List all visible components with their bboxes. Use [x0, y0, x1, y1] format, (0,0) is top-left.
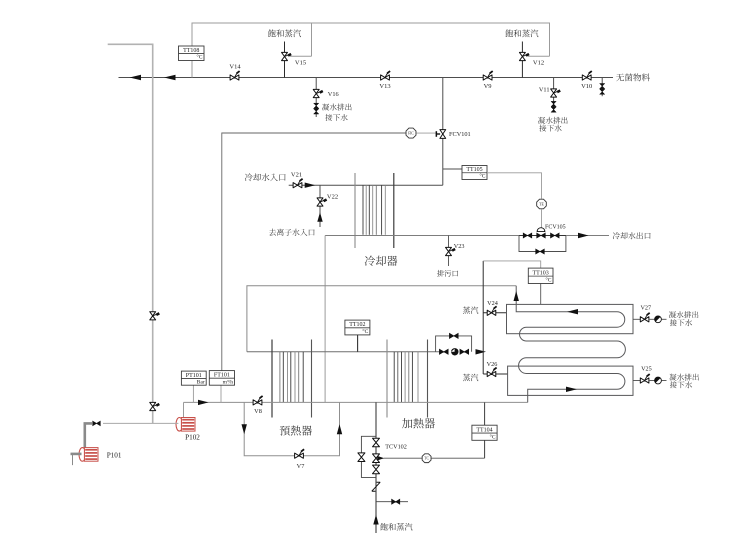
- svg-text:Bar: Bar: [197, 379, 205, 385]
- flow arrow up coil exit: [514, 291, 519, 301]
- valve V26 steam to coil 2: [483, 373, 507, 375]
- strainer mark steam inlet: [372, 482, 380, 491]
- wire FCV105 main run: [519, 235, 566, 237]
- label condensate drain V16: [322, 104, 329, 111]
- svg-text:PT101: PT101: [186, 373, 202, 379]
- valve recirculation lower: [150, 402, 156, 410]
- wire P101 suction: [71, 453, 82, 456]
- valve V25 condensate coil 2: [633, 380, 640, 382]
- svg-text:TT105: TT105: [466, 167, 482, 173]
- instrument FIC controller: [406, 128, 416, 138]
- wire TCV102 bypass: [361, 436, 376, 477]
- control valve FCV101: [440, 130, 446, 139]
- label saturated steam left: [268, 29, 276, 37]
- valve FCV105 downstream block: [551, 233, 560, 238]
- instrument TC controller: [422, 454, 431, 463]
- instrument TT103: [528, 268, 553, 283]
- wire product riser to cooler: [324, 236, 326, 403]
- label steam V26: [463, 374, 470, 381]
- wire cooling water inlet line: [289, 184, 443, 186]
- ball valve TCV101: [451, 348, 458, 355]
- valve V22 deionized water branch: [319, 185, 321, 227]
- svg-text:V8: V8: [254, 408, 262, 415]
- svg-text:TE: TE: [539, 202, 544, 206]
- svg-text:V7: V7: [297, 463, 305, 470]
- valve TCV101 upstream block: [439, 349, 448, 354]
- instrument TT105: [443, 168, 462, 170]
- label cooling water outlet: [613, 232, 620, 239]
- label condensate drain V27: [669, 311, 676, 318]
- flow arrow up deionized water: [317, 212, 322, 222]
- valve FCV105 bypass: [536, 249, 545, 254]
- heat exchanger heater plates: [386, 340, 388, 418]
- svg-text:V27: V27: [640, 305, 651, 312]
- svg-text:°C: °C: [197, 54, 203, 61]
- steam trap below V11: [551, 101, 556, 106]
- flow arrow right in coil 2: [566, 387, 577, 392]
- wire cooling water outlet: [566, 235, 609, 237]
- valve V27 condensate coil 1: [633, 318, 640, 320]
- steam trap V25: [649, 380, 655, 382]
- svg-text:V25: V25: [641, 366, 652, 373]
- valve V12 with steam tap: [521, 42, 523, 78]
- pump P102: [176, 418, 183, 432]
- valve V24 steam to coil 1: [483, 312, 506, 314]
- wire product line pump to coils y402: [184, 401, 528, 403]
- valve recirculation upper: [150, 312, 156, 320]
- valve FCV105 upstream block: [523, 233, 532, 238]
- label sterile product out: [616, 74, 624, 82]
- valve V7: [295, 453, 304, 458]
- svg-text:TC: TC: [424, 456, 429, 460]
- signal TE to FCV105: [541, 209, 543, 229]
- holding coil jacket 1: [507, 304, 634, 333]
- steam trap V27: [649, 318, 655, 320]
- svg-text:°C: °C: [480, 173, 486, 180]
- holding coil jacket 2: [508, 366, 633, 395]
- flow arrow pump discharge: [198, 400, 209, 405]
- svg-text:TT102: TT102: [349, 322, 365, 328]
- wire cooler product outlet line y235: [325, 235, 519, 237]
- label cooler: [365, 256, 375, 266]
- wire steam header: [482, 261, 484, 374]
- svg-text:V9: V9: [484, 83, 492, 90]
- wire main product return header y78: [119, 77, 614, 79]
- svg-text:P101: P101: [107, 451, 122, 459]
- pump P101: [79, 448, 86, 462]
- label saturated steam bottom: [380, 523, 388, 530]
- svg-text:TCV102: TCV102: [385, 443, 407, 450]
- wire TCV102 steam riser: [375, 402, 377, 533]
- wire P102 discharge riser: [183, 402, 185, 417]
- wire recirculation riser x153: [108, 44, 153, 423]
- valve V14: [230, 75, 239, 80]
- flow arrow after V21: [305, 183, 316, 188]
- signal TT103 elbow: [483, 261, 541, 268]
- label preheater: [280, 426, 290, 436]
- svg-text:FT101: FT101: [214, 373, 230, 379]
- wire P101 discharge elbow: [85, 423, 93, 448]
- instrument PT101: [192, 385, 194, 402]
- svg-text:m³/h: m³/h: [223, 379, 234, 385]
- valve TCV101 downstream block: [460, 349, 469, 354]
- valve V21: [293, 183, 302, 188]
- wire top steam loop: [192, 23, 550, 78]
- valve TCV102 control: [373, 454, 380, 463]
- valve V8: [253, 400, 262, 405]
- wire TCV101 bypass loop: [436, 336, 472, 352]
- valve steam inlet drain branch: [376, 501, 408, 503]
- valve V10: [582, 75, 591, 80]
- svg-text:TT108: TT108: [183, 48, 199, 54]
- label steam V24: [463, 306, 470, 313]
- instrument TT102: [345, 320, 370, 335]
- signal line FT101 to FIC: [222, 133, 406, 371]
- svg-text:V24: V24: [487, 300, 498, 307]
- signal arrow into TCV102: [377, 456, 384, 461]
- svg-text:V11: V11: [539, 87, 550, 94]
- svg-text:V26: V26: [487, 361, 498, 368]
- heat exchanger preheater plates: [271, 340, 273, 418]
- svg-text:V21: V21: [291, 172, 302, 179]
- label condensate drain V11: [538, 117, 545, 124]
- svg-text:P102: P102: [185, 434, 200, 442]
- valve TCV102 bypass: [358, 453, 365, 462]
- label deionized water inlet: [269, 229, 276, 236]
- flow arrow cooling water outlet: [578, 233, 589, 238]
- signal line FIC to FCV101: [416, 132, 435, 134]
- valve V13: [381, 75, 390, 80]
- wire product branch to TT104: [484, 402, 486, 458]
- valve V16 condensate branch: [315, 78, 317, 118]
- valve P101 discharge: [93, 421, 101, 426]
- steam trap after V10: [601, 78, 603, 97]
- label condensate drain V25: [669, 374, 676, 381]
- instrument TE: [537, 199, 547, 209]
- wire hot product return y286: [247, 286, 516, 352]
- flow arrow steam inlet: [373, 515, 378, 525]
- valve TCV102 lower: [373, 465, 380, 474]
- label heater: [402, 418, 412, 428]
- svg-text:FCV101: FCV101: [449, 131, 471, 138]
- svg-text:V23: V23: [454, 243, 465, 250]
- wire preheater hot side y352: [247, 351, 439, 353]
- wire V7 recirculation loop: [244, 402, 339, 455]
- control valve FCV105 with diaphragm: [537, 228, 545, 232]
- wire FCV105 bypass loop: [519, 236, 566, 252]
- svg-text:TT104: TT104: [476, 427, 492, 433]
- wire FCV101 product line: [442, 78, 444, 186]
- flow arrow left in coil 1: [567, 309, 578, 314]
- flow arrow down V7 loop: [242, 424, 247, 434]
- flow arrow left 2: [164, 75, 176, 80]
- flow arrow left 1: [130, 75, 142, 80]
- instrument TT108: [179, 46, 205, 61]
- instrument FT101: [220, 385, 222, 402]
- svg-text:FIC: FIC: [408, 131, 414, 135]
- svg-text:°C: °C: [546, 277, 552, 284]
- svg-text:FCV105: FCV105: [545, 225, 566, 231]
- label cooling water inlet: [245, 173, 253, 181]
- signal TT105 to TE: [487, 173, 542, 199]
- svg-text:°C: °C: [490, 434, 496, 441]
- valve V15 with steam tap: [284, 42, 286, 78]
- svg-text:V14: V14: [229, 64, 241, 71]
- steam trap below V16: [314, 103, 319, 108]
- label saturated steam right: [505, 29, 513, 37]
- holding tube serpentine: [516, 286, 625, 403]
- valve TCV101 bypass: [449, 333, 458, 338]
- label blowdown outlet: [437, 270, 444, 277]
- flow arrow steam to header: [476, 349, 487, 354]
- signal line TC: [384, 457, 422, 459]
- svg-text:TT103: TT103: [532, 271, 548, 277]
- svg-text:V12: V12: [533, 60, 544, 67]
- svg-text:V15: V15: [295, 60, 306, 67]
- wire pump suction line: [103, 422, 178, 424]
- heat exchanger cooler plates: [354, 173, 356, 248]
- instrument TT104: [472, 425, 497, 440]
- valve V9: [483, 75, 492, 80]
- svg-text:V22: V22: [327, 194, 338, 201]
- valve V11 condensate branch: [553, 78, 555, 113]
- svg-text:°C: °C: [362, 328, 368, 335]
- valve TCV102 upper: [373, 438, 380, 447]
- valve V23 blowdown: [448, 236, 450, 267]
- svg-text:V10: V10: [581, 83, 592, 90]
- svg-text:V16: V16: [328, 91, 339, 98]
- flow arrow up V7 loop: [337, 424, 342, 434]
- svg-text:V13: V13: [379, 83, 390, 90]
